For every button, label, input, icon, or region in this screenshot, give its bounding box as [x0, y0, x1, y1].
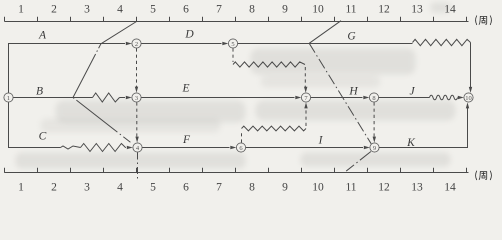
svg-text:2: 2	[135, 41, 138, 48]
top axis unit label (weeks)	[476, 16, 477, 25]
top axis tick marks	[5, 17, 467, 22]
svg-text:J: J	[409, 86, 415, 98]
front line 2: node 9 down to bottom axis	[343, 152, 371, 174]
svg-text:2: 2	[51, 182, 57, 194]
svg-text:3: 3	[84, 4, 90, 16]
activity C arrow from node 1 down and right to node 4 with free-float wave	[9, 102, 61, 147]
svg-text:14: 14	[444, 182, 456, 194]
node 3	[132, 93, 141, 102]
activity K arrow from node 9 right then up into node 10	[379, 107, 467, 148]
dummy arrow node 3 to node 4	[136, 102, 138, 138]
svg-text:9: 9	[282, 182, 288, 194]
bottom axis unit label (weeks)	[476, 171, 477, 180]
svg-text:10: 10	[312, 4, 324, 16]
svg-text:12: 12	[378, 182, 390, 194]
node 1	[4, 93, 13, 102]
svg-text:14: 14	[444, 4, 456, 16]
svg-text:8: 8	[372, 95, 375, 102]
activity I arrow from node 6 to node 9	[246, 147, 363, 149]
svg-text:6: 6	[183, 182, 189, 194]
svg-text:7: 7	[216, 4, 222, 16]
front line 2: top axis to activity G progress point	[309, 21, 341, 44]
bottom time axis line	[5, 172, 469, 174]
svg-text:D: D	[184, 29, 194, 41]
svg-text:5: 5	[150, 4, 156, 16]
bottom axis week numbers 1-14	[18, 182, 456, 194]
front line 2: activity G point down to node 9	[309, 43, 371, 144]
activity G arrow from node 5 to node 10 with free-float wave and down turn	[238, 43, 413, 45]
front line 1: activity B point to node 4	[73, 98, 134, 145]
svg-text:12: 12	[378, 4, 390, 16]
svg-text:11: 11	[345, 182, 356, 194]
activity B arrow from node 1 to node 3 with free-float wave	[13, 97, 92, 99]
svg-text:2: 2	[51, 4, 57, 16]
svg-text:3: 3	[84, 182, 90, 194]
dummy arrow node 6 to node 7 with float wave	[241, 131, 243, 143]
top time axis line	[5, 21, 469, 23]
node 2	[132, 39, 141, 48]
svg-text:K: K	[406, 137, 416, 149]
activity A arrow from node 1 up and right to node 2	[9, 44, 126, 93]
svg-text:7: 7	[216, 182, 222, 194]
svg-text:3: 3	[135, 95, 138, 102]
activity F arrow from node 4 to node 6	[142, 147, 229, 149]
bottom axis tick marks	[5, 168, 467, 173]
node 9	[370, 143, 379, 152]
svg-text:11: 11	[345, 4, 356, 16]
svg-text:8: 8	[249, 182, 255, 194]
node 7	[301, 93, 310, 102]
node 8	[369, 93, 378, 102]
svg-text:1: 1	[7, 95, 10, 102]
svg-text:1: 1	[18, 4, 24, 16]
svg-text:13: 13	[411, 4, 423, 16]
svg-text:10: 10	[465, 95, 472, 102]
svg-text:A: A	[38, 30, 47, 42]
dummy arrow node 2 to node 3	[136, 48, 138, 88]
dummy arrow node 8 to node 9	[373, 102, 375, 138]
activity D arrow from node 2 to node 5	[141, 43, 221, 45]
svg-text:C: C	[39, 131, 47, 143]
node 5	[228, 39, 237, 48]
svg-text:1: 1	[18, 182, 24, 194]
activity E arrow from node 3 to node 7	[141, 97, 294, 99]
node 4	[133, 143, 142, 152]
svg-text:E: E	[181, 83, 189, 95]
svg-text:8: 8	[249, 4, 255, 16]
activity J arrow from node 8 to node 10 with sinusoidal free-float wave	[379, 97, 430, 99]
svg-text:H: H	[348, 86, 358, 98]
svg-text:9: 9	[373, 145, 376, 152]
dummy arrow node 5 to node 7 with float wave	[232, 48, 234, 62]
svg-text:5: 5	[231, 41, 234, 48]
node 10	[464, 93, 473, 102]
svg-text:4: 4	[117, 182, 123, 194]
svg-text:5: 5	[150, 182, 156, 194]
svg-text:4: 4	[117, 4, 123, 16]
activity H arrow from node 7 to node 8	[311, 97, 363, 99]
svg-text:10: 10	[312, 182, 324, 194]
front line 1: node 4 down to bottom axis	[137, 153, 139, 179]
top axis week numbers 1-14	[18, 4, 456, 16]
svg-text:9: 9	[282, 4, 288, 16]
front line 1: top axis to activity A progress point	[101, 22, 137, 44]
svg-text:13: 13	[411, 182, 423, 194]
svg-text:B: B	[36, 86, 43, 98]
svg-text:G: G	[347, 31, 356, 43]
svg-text:I: I	[318, 135, 324, 147]
svg-text:6: 6	[183, 4, 189, 16]
svg-text:F: F	[182, 134, 191, 146]
front line 1: activity A point to activity B progress point	[73, 44, 101, 98]
node 6	[236, 143, 245, 152]
